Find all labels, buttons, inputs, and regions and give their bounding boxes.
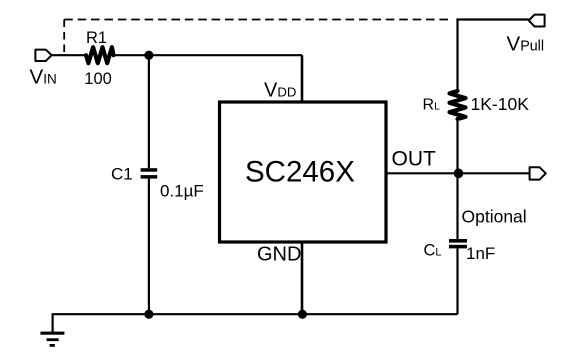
wire: R1 right lead to VDD corner (114, 54, 303, 56)
wire: dashed pull-up feedback vertical (63, 20, 65, 55)
IC U1 SC246X (220, 102, 387, 242)
wire: CL bottom plate to ground bus (456, 248, 458, 314)
wire: ground bus (53, 314, 458, 333)
capacitor CL (449, 239, 467, 248)
wire: top right solid to VPull connector (456, 18, 528, 20)
svg-text:1nF: 1nF (466, 244, 495, 263)
node: R1/C1/VDD junction (144, 51, 153, 60)
svg-text:GND: GND (257, 243, 301, 265)
node: GND pin / ground bus junction (298, 310, 307, 319)
wire: RL to CL top plate (456, 119, 458, 239)
svg-text:SC246X: SC246X (245, 155, 355, 188)
wire: VPull vertical to RL (456, 20, 458, 92)
wire: OUT pin to output connector (386, 172, 530, 174)
connector OUT (530, 167, 546, 179)
wire: node to C1 top plate (148, 55, 150, 168)
wire: VDD drop into IC (301, 55, 304, 101)
wire: VIN connector to R1 left lead (52, 54, 86, 56)
svg-text:C1: C1 (111, 164, 133, 183)
svg-text:1K-10K: 1K-10K (471, 94, 530, 114)
wire: C1 bottom plate to ground bus (148, 179, 150, 315)
capacitor C1 (141, 168, 158, 178)
svg-text:OUT: OUT (392, 147, 437, 170)
resistor R1 (86, 47, 114, 63)
wire: dashed pull-up feedback horizontal (64, 19, 451, 21)
connector VIN (35, 50, 51, 61)
wire: IC GND pin to ground bus (301, 244, 304, 315)
node: C1 / ground bus junction (144, 310, 153, 319)
svg-text:100: 100 (84, 70, 112, 88)
svg-text:R1: R1 (86, 29, 107, 47)
connector VPull (529, 15, 545, 27)
resistor RL (450, 91, 466, 119)
svg-text:Optional: Optional (462, 207, 527, 227)
ground (40, 332, 64, 347)
svg-text:0.1µF: 0.1µF (160, 181, 204, 200)
node: OUT junction (454, 169, 464, 179)
